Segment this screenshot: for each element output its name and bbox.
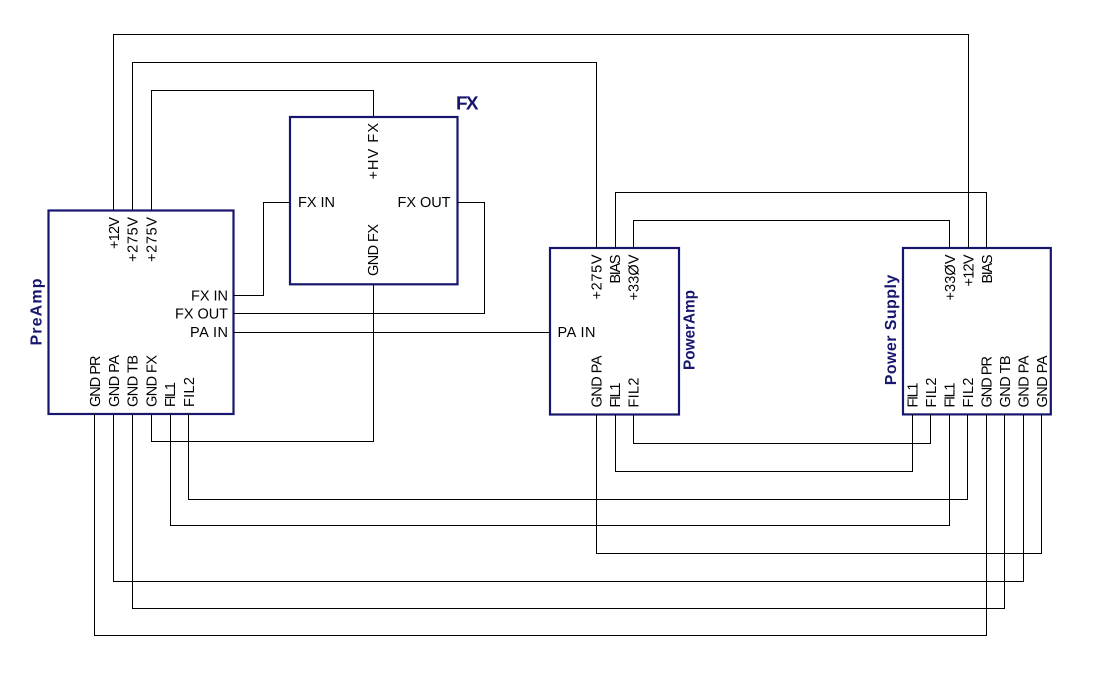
svg-text:GND TB: GND TB	[126, 355, 142, 407]
svg-text:GND PA: GND PA	[1035, 355, 1051, 407]
svg-text:+275V: +275V	[126, 217, 142, 262]
block Power Supply	[903, 248, 1051, 414]
svg-text:PreAmp: PreAmp	[29, 278, 46, 345]
wire GND TB: PreAmp GND TB to Power Supply GND TB pin 6	[133, 414, 1005, 609]
block PreAmp	[49, 211, 234, 415]
svg-text:FX: FX	[456, 94, 479, 115]
wire +12V: PreAmp top pin 1 to Power Supply +12V	[114, 35, 969, 249]
svg-text:GND PA: GND PA	[107, 355, 123, 407]
wire +275V: PreAmp top pin 2 to PowerAmp +275V	[133, 63, 597, 249]
svg-text:GND PA: GND PA	[590, 355, 606, 407]
svg-text:FIL2: FIL2	[961, 378, 977, 408]
wire GND PA second: PowerAmp GND PA to Power Supply GND PA pin 8	[597, 415, 1042, 554]
svg-text:PA IN: PA IN	[190, 325, 228, 341]
wire FIL2: PreAmp FIL2 to Power Supply FIL2 pin 4	[189, 414, 968, 500]
svg-text:FIL1: FIL1	[906, 383, 922, 408]
svg-text:+12V: +12V	[107, 217, 123, 249]
svg-text:GND TB: GND TB	[998, 356, 1014, 408]
svg-text:GND PA: GND PA	[1017, 355, 1033, 407]
svg-text:Power Supply: Power Supply	[883, 275, 900, 386]
svg-text:GND FX: GND FX	[366, 224, 382, 276]
svg-text:PA IN: PA IN	[558, 325, 596, 341]
svg-text:BIAS: BIAS	[980, 255, 996, 284]
svg-text:+12V: +12V	[962, 254, 978, 286]
wire FX IN: PreAmp FX IN to FX box FX IN	[234, 203, 291, 296]
svg-text:FX OUT: FX OUT	[175, 306, 228, 322]
wire GND PR: PreAmp GND PR to Power Supply GND PR pin 5	[95, 414, 987, 636]
svg-text:FIL2: FIL2	[182, 377, 198, 407]
block PowerAmp	[550, 248, 679, 415]
svg-text:+275V: +275V	[144, 217, 160, 262]
svg-text:FX OUT: FX OUT	[398, 195, 451, 211]
wire +275V second: PreAmp top pin 3 to FX +HV FX	[152, 91, 374, 211]
svg-text:FIL1: FIL1	[608, 383, 624, 408]
svg-text:GND PR: GND PR	[88, 356, 104, 408]
svg-text:FIL2: FIL2	[627, 378, 643, 408]
block FX	[290, 117, 458, 284]
wire PA IN: PreAmp PA IN to PowerAmp PA IN	[234, 332, 551, 334]
svg-text:PowerAmp: PowerAmp	[682, 290, 699, 370]
wire GND FX: PreAmp GND FX to FX box GND FX	[152, 284, 374, 441]
wire FIL2 second: PowerAmp FIL2 to Power Supply FIL2 pin 2	[634, 415, 931, 444]
svg-text:+33ØV: +33ØV	[627, 254, 643, 300]
svg-text:GND FX: GND FX	[144, 355, 160, 407]
wire FX OUT: FX box FX OUT to PreAmp FX OUT	[234, 203, 485, 314]
svg-text:FIL2: FIL2	[924, 378, 940, 408]
svg-text:FIL1: FIL1	[943, 383, 959, 408]
svg-text:GND PR: GND PR	[980, 356, 996, 408]
wire FIL1: PreAmp FIL1 to Power Supply FIL1 pin 3	[171, 414, 950, 526]
svg-text:FX IN: FX IN	[298, 195, 335, 211]
svg-text:FX IN: FX IN	[191, 289, 228, 305]
wire BIAS: PowerAmp BIAS to Power Supply BIAS	[616, 193, 987, 249]
svg-text:FIL1: FIL1	[163, 382, 179, 407]
svg-text:BIAS: BIAS	[608, 255, 624, 284]
wire FIL1 second: PowerAmp FIL1 to Power Supply FIL1 pin 1	[616, 415, 913, 472]
wire GND PA: PreAmp GND PA to Power Supply GND PA pin 7	[114, 414, 1024, 582]
wire +330V: PowerAmp +330V to Power Supply +330V	[634, 221, 950, 249]
svg-text:+275V: +275V	[590, 254, 606, 299]
svg-text:+33ØV: +33ØV	[943, 254, 959, 300]
